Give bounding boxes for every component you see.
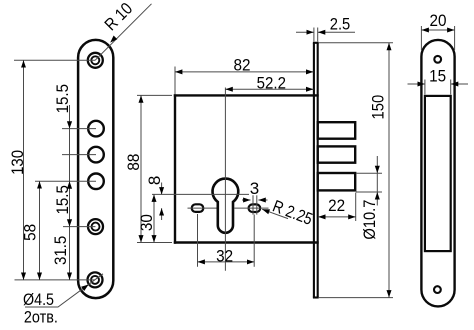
svg-text:Ø10.7: Ø10.7 bbox=[360, 200, 379, 240]
svg-text:15.5: 15.5 bbox=[53, 84, 72, 113]
svg-text:82: 82 bbox=[234, 56, 251, 75]
svg-text:20: 20 bbox=[430, 11, 447, 30]
svg-text:32: 32 bbox=[216, 246, 233, 265]
svg-text:52.2: 52.2 bbox=[257, 74, 286, 93]
svg-text:130: 130 bbox=[8, 150, 27, 175]
svg-text:8: 8 bbox=[145, 176, 164, 185]
svg-text:15: 15 bbox=[429, 67, 446, 86]
svg-text:2.5: 2.5 bbox=[330, 15, 351, 34]
svg-text:150: 150 bbox=[368, 95, 387, 120]
svg-text:22: 22 bbox=[328, 196, 345, 215]
svg-text:2отв.: 2отв. bbox=[24, 307, 58, 326]
svg-text:31.5: 31.5 bbox=[51, 236, 70, 265]
svg-text:3: 3 bbox=[250, 179, 259, 198]
svg-text:58: 58 bbox=[20, 224, 39, 241]
svg-text:30: 30 bbox=[137, 214, 156, 231]
svg-text:15.5: 15.5 bbox=[53, 185, 72, 214]
svg-text:88: 88 bbox=[124, 154, 143, 171]
